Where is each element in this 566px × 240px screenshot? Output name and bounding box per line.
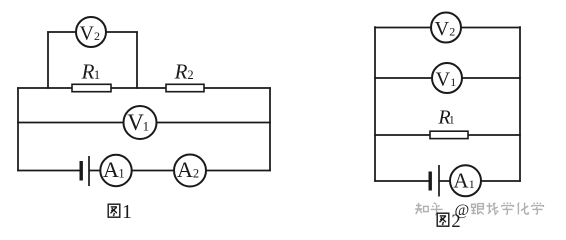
svg-text:1: 1 xyxy=(94,68,100,82)
svg-text:2: 2 xyxy=(94,29,100,43)
wire: circuit2 top line left of V2 xyxy=(374,27,431,29)
svg-text:1: 1 xyxy=(118,167,124,181)
svg-text:2: 2 xyxy=(451,212,460,232)
resistor R2 xyxy=(166,84,204,91)
battery BT1 xyxy=(81,156,89,186)
voltmeter V2 (circuit2) xyxy=(431,13,461,43)
wire: circuit1 left edge xyxy=(17,87,19,171)
wire: V2 loop left vertical xyxy=(47,31,49,89)
svg-text:2: 2 xyxy=(187,68,193,82)
wire: circuit1 middle rung left of V1 xyxy=(17,122,124,124)
svg-text:2: 2 xyxy=(193,167,199,181)
svg-text:A: A xyxy=(177,157,193,182)
ammeter A1 (circuit2) xyxy=(450,165,481,196)
voltmeter V1 (circuit2) xyxy=(432,63,462,93)
wire: circuit2 top line right of V2 xyxy=(461,27,521,29)
wire: circuit2 R1 rung right xyxy=(468,134,521,136)
wire: A2 to circuit1 right edge xyxy=(206,170,271,172)
wire: circuit1 middle rung right of V1 xyxy=(156,122,270,124)
wire: A1 to A2 xyxy=(132,170,175,172)
wire: circuit2 V1 rung left xyxy=(374,77,432,79)
wire: circuit2 bottom left of battery xyxy=(374,180,428,182)
label figure 2 (图2) xyxy=(437,212,460,232)
svg-text:1: 1 xyxy=(449,115,455,127)
svg-text:A: A xyxy=(103,157,119,182)
wire: A1 to circuit2 right edge xyxy=(481,180,521,182)
watermark 知乎 @跟我学化学 xyxy=(415,202,543,219)
wire: battery to A1 (circuit2) xyxy=(439,180,451,182)
wire: circuit2 V1 rung right xyxy=(462,77,521,79)
voltmeter V1 xyxy=(124,106,157,139)
wire: V2 loop top left segment xyxy=(47,31,76,33)
svg-text:V: V xyxy=(435,18,450,40)
svg-text:R: R xyxy=(81,60,95,84)
svg-text:R: R xyxy=(174,60,188,84)
label R1 xyxy=(81,60,101,84)
svg-text:V: V xyxy=(127,110,144,135)
wire: circuit1 right edge xyxy=(269,87,271,171)
ammeter A1 xyxy=(100,155,131,186)
svg-text:1: 1 xyxy=(122,201,132,223)
wire: circuit1 top line between R1 and R2 xyxy=(111,87,166,89)
label figure 1 (图1) xyxy=(108,201,132,223)
wire: circuit1 top line right of R2 xyxy=(204,87,271,89)
svg-text:V: V xyxy=(79,22,94,44)
wire: V2 loop top right segment xyxy=(106,31,138,33)
wire: battery to A1 xyxy=(89,170,101,172)
svg-text:V: V xyxy=(436,69,451,91)
resistor R1 (circuit2) xyxy=(430,131,468,138)
svg-text:2: 2 xyxy=(449,25,455,39)
wire: circuit2 right edge xyxy=(519,26,521,182)
svg-text:1: 1 xyxy=(469,177,475,191)
wire: circuit2 R1 rung left xyxy=(374,134,430,136)
svg-text:1: 1 xyxy=(450,75,456,89)
battery BT2 xyxy=(430,165,439,197)
label R2 xyxy=(174,60,194,84)
svg-text:1: 1 xyxy=(143,119,150,134)
wire: circuit2 left edge xyxy=(374,26,376,182)
wire: circuit1 bottom left of battery xyxy=(17,170,79,172)
wire: circuit1 top line left of R1 xyxy=(17,87,72,89)
wire: V2 loop right vertical xyxy=(136,31,138,89)
ammeter A2 xyxy=(174,155,206,187)
label R1 (circuit2) xyxy=(437,106,454,128)
voltmeter V2 xyxy=(76,17,106,47)
svg-text:A: A xyxy=(453,169,469,193)
resistor R1 xyxy=(72,84,111,91)
